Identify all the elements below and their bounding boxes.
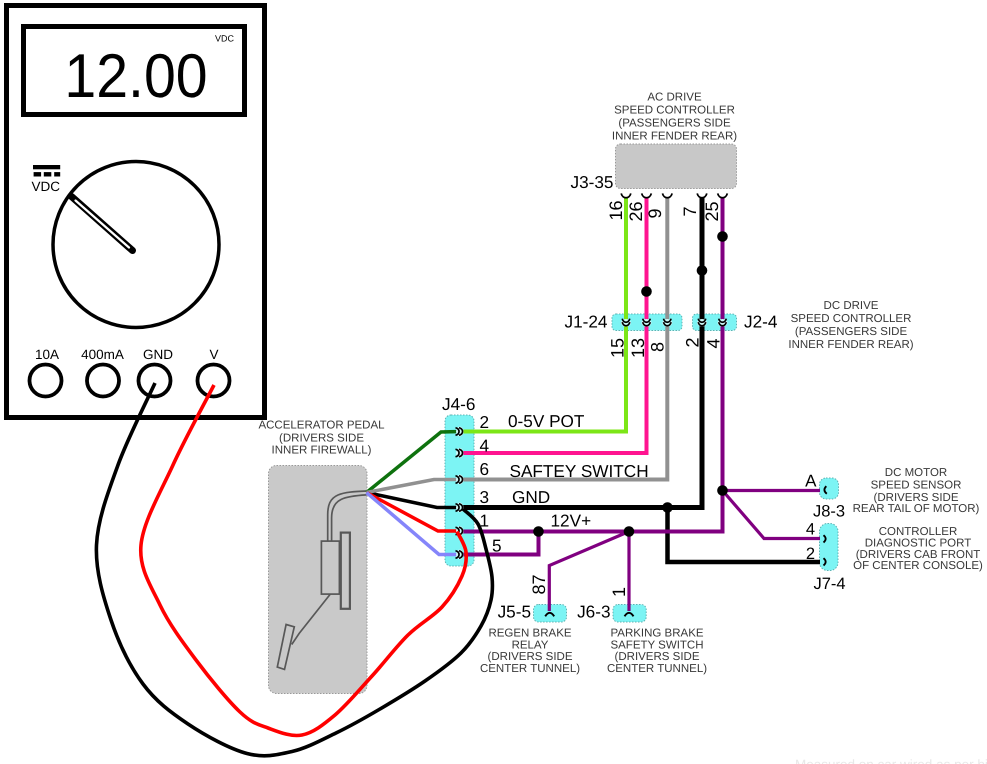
connector J6-3 body (613, 605, 646, 623)
svg-text:VDC: VDC (32, 179, 61, 194)
svg-text:VDC: VDC (215, 34, 235, 44)
svg-text:15: 15 (608, 338, 628, 358)
svg-text:(DRIVERS CAB FRONT: (DRIVERS CAB FRONT (856, 549, 981, 561)
svg-text:(DRIVERS SIDE: (DRIVERS SIDE (488, 651, 573, 663)
svg-text:J6-3: J6-3 (577, 602, 610, 622)
rotary dial (53, 162, 219, 328)
svg-text:GND: GND (512, 487, 550, 507)
wire: pedal black to J4-6 pin 3 (367, 493, 461, 508)
connector J2-4 body (693, 314, 737, 331)
svg-text:PARKING BRAKE: PARKING BRAKE (610, 628, 703, 640)
svg-text:INNER FENDER REAR): INNER FENDER REAR) (612, 130, 737, 142)
svg-text:2: 2 (683, 337, 703, 347)
connector J7-4 body (820, 524, 839, 571)
svg-text:4: 4 (704, 338, 724, 348)
connector J8-3 body (820, 478, 839, 499)
multimeter body (7, 6, 265, 418)
svg-text:16: 16 (606, 200, 626, 220)
J4-6 pin chevrons (456, 427, 464, 560)
wire: purple junction diagonal to J7-4 pin 4 (723, 491, 821, 539)
svg-text:DC MOTOR: DC MOTOR (885, 467, 947, 479)
junction node GND branch (662, 502, 673, 513)
svg-text:J8-3: J8-3 (813, 503, 845, 521)
svg-text:25: 25 (702, 201, 722, 221)
wire: purple diagonal to J5-5 pin 87 (549, 532, 629, 612)
svg-text:ACCELERATOR PEDAL: ACCELERATOR PEDAL (258, 420, 385, 432)
svg-text:CENTER TUNNEL): CENTER TUNNEL) (480, 663, 580, 675)
svg-text:10A: 10A (35, 347, 59, 362)
wire: lime J3-35 pin16 through J1-24 pin15 to J4-6 pin2 (0-5V POT) (460, 198, 626, 432)
svg-text:1: 1 (609, 587, 629, 597)
dial needle (72, 197, 133, 251)
wire: pedal dark green to J4-6 pin 2 (367, 432, 461, 493)
wire: GND branch to J7-4 pin 2 (668, 508, 821, 563)
svg-text:Measured on car wired as per b: Measured on car wired as per bill of mat… (795, 757, 987, 764)
jack GND (139, 365, 171, 397)
wire: pedal gray to J4-6 pin 6 (367, 480, 461, 493)
svg-text:87: 87 (529, 574, 549, 594)
wire: pink J3-35 pin26 through J1-24 pin13 to J4-6 pin4 (460, 198, 647, 454)
svg-text:0-5V POT: 0-5V POT (508, 411, 585, 431)
svg-text:12V+: 12V+ (551, 511, 592, 531)
label ACCELERATOR PEDAL block (258, 420, 385, 457)
wire: black J3-35 pin7 to J2-4 pin2 to GND line (460, 198, 702, 508)
svg-text:SPEED CONTROLLER: SPEED CONTROLLER (614, 105, 735, 117)
jack 400mA (87, 365, 119, 397)
svg-text:4: 4 (806, 521, 815, 539)
svg-text:5: 5 (492, 536, 502, 556)
AC drive speed controller box J3-35 (616, 144, 737, 189)
svg-text:9: 9 (645, 208, 665, 218)
junction node purple J8/J7 branch (717, 485, 728, 496)
svg-text:8: 8 (648, 342, 668, 352)
connector J1-24 body (612, 314, 682, 331)
black test lead from GND jack (96, 383, 492, 756)
svg-text:DC DRIVE: DC DRIVE (824, 300, 879, 312)
multimeter LCD (24, 27, 245, 115)
svg-text:(DRIVERS SIDE: (DRIVERS SIDE (615, 651, 700, 663)
DC symbol (33, 165, 60, 177)
svg-text:26: 26 (626, 201, 646, 221)
svg-text:J4-6: J4-6 (442, 394, 475, 414)
label CONTROLLER DIAGNOSTIC block (853, 526, 983, 572)
wire: purple drop to J6-3 pin 1 (627, 532, 630, 612)
wire: pedal red to J4-6 pin 1 (367, 493, 461, 532)
wire: pedal blue to J4-6 pin 5 (367, 493, 461, 555)
svg-text:CONTROLLER: CONTROLLER (879, 526, 958, 538)
red test lead from V jack (141, 385, 467, 736)
label AC DRIVE block (612, 92, 737, 143)
svg-text:(DRIVERS SIDE: (DRIVERS SIDE (874, 492, 959, 504)
svg-text:SAFTEY SWITCH: SAFTEY SWITCH (510, 461, 649, 481)
svg-text:V: V (209, 347, 218, 362)
junction dot on black wire 7 (697, 265, 708, 276)
svg-text:2: 2 (479, 412, 489, 432)
junction dot on purple wire 25 (717, 231, 728, 242)
label REGEN BRAKE block (480, 628, 580, 675)
J6-3 pin arc (625, 613, 634, 617)
label DC DRIVE block (788, 300, 913, 351)
svg-text:J5-5: J5-5 (498, 602, 531, 622)
wire: purple J3-35 pin25 through J2-4 pin4 to junction (721, 198, 725, 491)
svg-text:J7-4: J7-4 (813, 575, 845, 593)
svg-text:7: 7 (680, 206, 700, 216)
jack V (198, 365, 230, 397)
connector J4-6 body (445, 415, 474, 566)
J8-3 pin arc (824, 486, 826, 494)
junction dot on pink wire (641, 286, 652, 297)
svg-text:6: 6 (479, 459, 489, 479)
svg-text:4: 4 (479, 436, 489, 456)
svg-text:J3-35: J3-35 (571, 172, 614, 192)
junction node 12V+ at pin5 loop (533, 526, 544, 537)
label DC MOTOR block (853, 467, 980, 515)
svg-text:3: 3 (479, 487, 489, 507)
svg-text:12.00: 12.00 (64, 41, 207, 110)
J7-4 pin arcs (824, 535, 826, 542)
svg-text:13: 13 (628, 338, 648, 358)
svg-text:DIAGNOSTIC PORT: DIAGNOSTIC PORT (865, 537, 972, 549)
J2-4 pin chevrons (697, 319, 728, 327)
svg-text:REGEN BRAKE: REGEN BRAKE (488, 628, 571, 640)
wire: purple junction to J8-3 pin A (723, 489, 821, 492)
accelerator pedal box (269, 466, 368, 694)
svg-text:INNER FIREWALL): INNER FIREWALL) (272, 444, 372, 456)
svg-text:(DRIVERS SIDE: (DRIVERS SIDE (279, 432, 364, 444)
svg-text:CENTER TUNNEL): CENTER TUNNEL) (607, 663, 707, 675)
wire: purple 12V+ line junction to J4-6 pin 1 (460, 491, 723, 532)
svg-text:A: A (805, 472, 817, 491)
svg-text:REAR TAIL OF MOTOR): REAR TAIL OF MOTOR) (853, 503, 980, 515)
svg-text:OF CENTER CONSOLE): OF CENTER CONSOLE) (853, 560, 983, 572)
svg-text:400mA: 400mA (81, 347, 124, 362)
svg-text:J2-4: J2-4 (744, 312, 778, 332)
J3-35 pin arcs (621, 193, 727, 197)
wire: gray J3-35 pin9 through J1-24 pin8 to J4-6 pin6 (SAFTEY SWITCH) (460, 198, 667, 480)
svg-text:SPEED CONTROLLER: SPEED CONTROLLER (791, 313, 912, 325)
svg-text:RELAY: RELAY (512, 639, 549, 651)
svg-text:INNER FENDER REAR): INNER FENDER REAR) (788, 339, 913, 351)
svg-text:GND: GND (143, 347, 173, 362)
svg-text:AC DRIVE: AC DRIVE (647, 92, 702, 104)
svg-text:(PASSENGERS SIDE: (PASSENGERS SIDE (618, 118, 731, 130)
svg-text:SPEED SENSOR: SPEED SENSOR (871, 479, 962, 491)
J1-24 pin chevrons (621, 319, 672, 327)
svg-text:J1-24: J1-24 (565, 312, 608, 332)
svg-text:2: 2 (806, 545, 815, 563)
wire: purple loop to J4-6 pin 5 (460, 532, 539, 555)
svg-text:(PASSENGERS SIDE: (PASSENGERS SIDE (795, 326, 908, 338)
junction node 12V+ at J6-3 drop (624, 526, 635, 537)
jack 10A (30, 365, 62, 397)
connector J5-5 body (534, 605, 567, 623)
J5-5 pin arc (545, 613, 554, 617)
svg-text:SAFETY SWITCH: SAFETY SWITCH (610, 639, 703, 651)
label PARKING BRAKE block (607, 628, 707, 675)
pedal mechanism drawing (277, 491, 366, 669)
